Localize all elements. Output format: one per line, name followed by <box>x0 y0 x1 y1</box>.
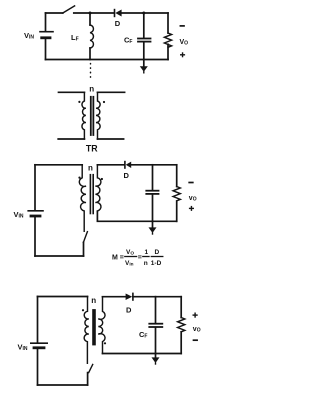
secondary winding (circuit 2) <box>95 165 101 211</box>
svg-text:VIN: VIN <box>14 210 24 220</box>
svg-text:LF: LF <box>71 33 79 43</box>
wire bottom primary (circuit 2) <box>35 255 84 257</box>
wire bottom primary (circuit 3) <box>38 384 88 386</box>
wire diode to corner (circuit 2) <box>131 164 177 166</box>
svg-text:D: D <box>155 249 160 256</box>
capacitor CF (circuit 1) <box>138 13 151 60</box>
svg-text:D: D <box>126 306 132 315</box>
TR polarity dot right <box>103 101 105 103</box>
TR secondary winding <box>96 92 100 139</box>
svg-text:VO: VO <box>126 249 134 256</box>
svg-text:D: D <box>124 171 130 180</box>
TR bottom-right lead <box>98 138 124 140</box>
diode D (circuit 3, cathode right) <box>126 293 133 300</box>
formula fraction bars <box>125 256 163 258</box>
wire top primary (circuit 2) <box>35 164 82 166</box>
wire left (circuit 2) <box>34 165 36 210</box>
resistor load (circuit 3) <box>178 297 185 354</box>
svg-text:D: D <box>115 19 121 28</box>
wire diode to right corner <box>122 12 168 14</box>
svg-text:M: M <box>112 255 118 262</box>
svg-text:vO: vO <box>193 326 201 334</box>
switch (circuit 2) <box>83 232 87 256</box>
polarity dot left (circuit 3) <box>82 309 84 311</box>
wire left-top vertical <box>45 13 47 31</box>
primary winding (circuit 3) <box>84 297 89 364</box>
switch S1 blade <box>63 6 75 13</box>
label plus (circuit 3) <box>193 313 197 317</box>
secondary winding (circuit 3) <box>98 297 105 354</box>
ground (circuit 1) <box>140 60 148 73</box>
battery VIN (circuit 3) <box>31 343 47 348</box>
switch (circuit 3) <box>88 365 93 386</box>
diode D (circuit 1, cathode left) <box>115 10 122 17</box>
wire bottom (circuit 1) <box>46 59 169 61</box>
capacitor CF (circuit 3) <box>149 297 162 354</box>
TR primary winding <box>82 92 86 139</box>
svg-text:n: n <box>89 84 94 93</box>
wire top-left horizontal <box>46 12 63 14</box>
dotted link line <box>90 64 92 81</box>
svg-text:1: 1 <box>145 249 149 256</box>
label minus (circuit 1) <box>180 25 184 27</box>
label minus (circuit 3) <box>194 339 198 341</box>
TR core <box>91 97 94 135</box>
svg-text:n: n <box>91 296 96 305</box>
wire left (circuit 3) <box>37 297 39 343</box>
TR top-left lead <box>59 91 85 93</box>
TR top-right lead <box>98 91 125 93</box>
svg-text:=: = <box>120 255 124 262</box>
svg-text:n: n <box>144 260 148 267</box>
svg-text:Vin: Vin <box>125 260 134 267</box>
battery VIN (circuit 1) <box>40 32 53 38</box>
svg-text:TR: TR <box>86 144 98 154</box>
svg-text:CF: CF <box>139 330 147 340</box>
wire top primary (circuit 3) <box>38 296 88 298</box>
label minus (circuit 2) <box>189 182 193 184</box>
ground (circuit 3) <box>152 354 160 365</box>
polarity dot right (circuit 2) <box>101 178 103 180</box>
ground (circuit 2) <box>149 221 157 234</box>
node junction CF top <box>142 12 145 15</box>
svg-text:n: n <box>88 164 93 173</box>
inductor LF <box>90 13 93 60</box>
capacitor (circuit 2) <box>146 165 158 222</box>
wire left-bottom vertical <box>45 39 47 60</box>
svg-text:=: = <box>138 255 142 262</box>
label plus (circuit 2) <box>190 207 194 211</box>
primary winding (circuit 2) <box>79 165 86 232</box>
label plus (circuit 1) <box>181 53 185 57</box>
wire diode to corner (circuit 3) <box>133 296 181 298</box>
svg-text:VO: VO <box>180 39 189 47</box>
wire secondary top (circuit 2) <box>97 164 124 166</box>
polarity dot left (circuit 2) <box>78 177 80 179</box>
TR bottom-left lead <box>58 138 84 140</box>
wire secondary top (circuit 3) <box>103 296 126 298</box>
diode D (circuit 2, cathode left) <box>125 162 131 168</box>
polarity dot right (circuit 3) <box>104 342 106 344</box>
transformer core (circuit 2) <box>90 175 93 214</box>
svg-text:VIN: VIN <box>24 31 34 41</box>
battery VIN (circuit 2) <box>28 211 43 216</box>
node junction LF top <box>89 12 92 15</box>
transformer core (circuit 3) <box>93 310 95 345</box>
wire bottom secondary (circuit 2) <box>97 212 176 222</box>
svg-text:vO: vO <box>189 195 197 203</box>
resistor load (circuit 2) <box>173 165 180 222</box>
wire bottom secondary (circuit 3) <box>103 353 182 355</box>
svg-text:VIN: VIN <box>18 343 28 353</box>
wire switch to diode <box>74 12 114 14</box>
resistor load (circuit 1) <box>164 13 171 60</box>
svg-text:1-D: 1-D <box>151 260 162 267</box>
svg-text:CF: CF <box>124 36 132 46</box>
TR polarity dot left <box>78 101 80 103</box>
